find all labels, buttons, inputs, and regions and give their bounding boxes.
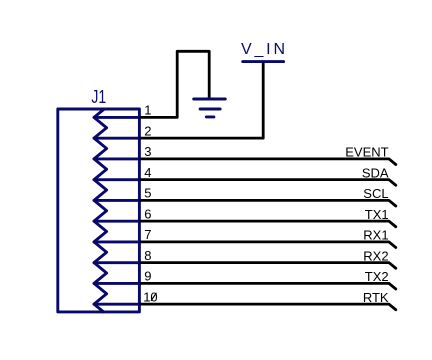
pin 8 contact line — [94, 261, 139, 264]
svg-text:8: 8 — [144, 248, 151, 263]
wire pin3 EVENT — [141, 159, 396, 165]
svg-text:5: 5 — [144, 186, 151, 201]
ground symbol — [194, 99, 226, 117]
wire pin6 TX1 — [141, 221, 396, 227]
wire pin9 TX2 — [141, 283, 396, 289]
svg-text:RX2: RX2 — [363, 248, 388, 263]
wire pin8 RX2 — [141, 263, 396, 269]
svg-text:10: 10 — [143, 289, 157, 304]
svg-text:SCL: SCL — [363, 186, 388, 201]
wire pin7 RX1 — [141, 242, 396, 248]
pin 4 contact line — [94, 178, 139, 181]
svg-text:RX1: RX1 — [363, 228, 388, 243]
svg-text:6: 6 — [144, 206, 151, 221]
connector spring zigzag — [94, 109, 107, 312]
svg-text:2: 2 — [144, 123, 151, 138]
wire pin4 SDA — [141, 180, 396, 186]
svg-text:TX1: TX1 — [365, 207, 389, 222]
pin 6 contact line — [94, 220, 139, 223]
wire pin1 to ground — [141, 51, 209, 117]
svg-text:SDA: SDA — [362, 165, 389, 180]
wire pin2 to V_IN — [141, 63, 263, 139]
svg-text:RTK: RTK — [363, 290, 389, 305]
pin 7 contact line — [94, 240, 139, 243]
pin 5 contact line — [94, 199, 139, 202]
svg-text:7: 7 — [144, 227, 151, 242]
pin 10 contact line — [94, 303, 139, 306]
pin 1 contact line — [94, 116, 139, 119]
svg-text:4: 4 — [144, 165, 151, 180]
svg-text:1: 1 — [144, 103, 151, 118]
connector J1 box outline — [58, 109, 140, 312]
svg-text:V_IN: V_IN — [241, 41, 285, 58]
wire pin10 RTK — [141, 304, 396, 310]
pin 3 contact line — [94, 157, 139, 160]
svg-text:3: 3 — [144, 144, 151, 159]
pin 2 contact line — [94, 137, 139, 140]
svg-text:9: 9 — [144, 269, 151, 284]
pin 9 contact line — [94, 282, 139, 285]
wire pin5 SCL — [141, 200, 396, 206]
svg-text:TX2: TX2 — [365, 269, 389, 284]
svg-text:EVENT: EVENT — [345, 145, 388, 160]
power flag V_IN bar — [243, 60, 284, 63]
slash of zero in pin number 10 — [151, 293, 156, 300]
svg-text:J1: J1 — [91, 87, 106, 107]
